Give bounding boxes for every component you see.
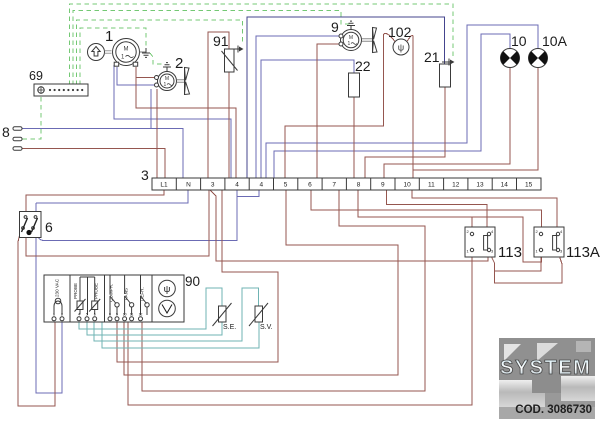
wire blue motor1 left terminal down to terminal 4 [114,65,231,178]
wire darkred relay 113 pin 1 to controller [128,252,472,405]
wire ground dashed PE4 to motor 1 ground and motor 2 ground [80,28,146,85]
svg-text:12: 12 [452,182,460,189]
svg-text:15: 15 [525,182,533,189]
svg-text:2: 2 [61,313,63,317]
wire darkred 21 bottom to terminal 8 [365,87,445,178]
wire blue switch6 right output to terminal 4 [36,190,237,241]
wire darkred 102 right lead to terminal 10 [407,35,413,178]
svg-text:4: 4 [235,182,239,189]
wire darkred motor1 right branch to terminal 4 [136,78,236,179]
svg-text:M: M [124,47,129,53]
svg-text:8: 8 [357,182,361,189]
wire darkred switch6 output to controller terminal 1 [18,230,55,406]
svg-text:6: 6 [308,182,312,189]
svg-text:S.E.: S.E. [223,324,236,331]
controller 90 [44,274,200,322]
WIRES-GREEN [22,4,453,139]
wire ground dashed PE2 to motor 9 ground [73,11,350,86]
svg-text:10: 10 [511,33,527,49]
svg-text:6: 6 [94,313,96,317]
svg-text:11: 11 [130,313,134,317]
svg-text:2: 2 [175,55,183,72]
svg-text:22: 22 [355,58,371,74]
wire ground dashed PE1 to 21 arrow [70,4,454,85]
wire blue lamp10A feed from terminal 4b [266,25,538,178]
wire blue plug8 to terminal N [22,129,183,179]
sensor SE [213,303,237,331]
svg-text:13: 13 [476,182,484,189]
svg-text:3: 3 [211,182,215,189]
wire blue motor2 lower down to L1 area [150,89,152,129]
svg-text:8: 8 [2,124,10,140]
svg-text:113A: 113A [566,244,600,261]
wire blue switch6 to controller terminal 2 [36,236,62,393]
wire blue N into switch 6 [35,203,37,212]
wire teal controller probe1 to sensor SE top [79,288,222,329]
wire ground dashed PE3 to 91 arrow [77,20,243,85]
svg-text:7: 7 [332,182,336,189]
logo SYSTEM [499,338,595,419]
sensor SV [249,303,273,331]
svg-text:COD. 3086730: COD. 3086730 [515,404,592,416]
wire darkred lamp10A return to terminal 10 [413,68,538,170]
thermostat 91 [213,33,244,72]
svg-text:9: 9 [331,19,339,35]
svg-text:11: 11 [428,182,435,189]
wire teal sensor SV bottom to controller [102,322,259,348]
svg-text:69: 69 [29,69,43,83]
fan motor 2 [184,67,186,95]
relay 113A [534,227,600,261]
svg-text:SYSTEM: SYSTEM [500,357,591,379]
wire blue N to switch 6 [36,190,188,203]
power cord 8 terminals [2,124,22,150]
motor M1 [105,28,146,66]
svg-text:5: 5 [284,182,288,189]
svg-text:8: 8 [109,313,111,317]
wire ground dashed PE6 from strip 69 to plug 8 [22,97,41,139]
terminal strip 69 [29,69,88,96]
wire blue terminal 4b to motor9 upper terminal [256,36,339,178]
ground motor 9 [347,21,355,29]
svg-text:9: 9 [116,313,118,317]
pump symbol left of motor 1 [88,44,112,61]
wire darkred 91 top to terminal 3 [208,32,229,178]
pressure switch 102 [388,24,412,55]
wire darkred terminal 8 to relay 113 pin 2 and 113A pin 1 [358,190,542,262]
svg-text:1: 1 [53,313,55,317]
svg-text:ψ: ψ [398,43,404,53]
motor M2 [155,55,185,91]
wire darkred motor9 lower terminal to terminal 6 [317,44,340,178]
svg-text:21: 21 [424,49,440,65]
svg-text:3: 3 [141,167,149,183]
wire darkred motor2 upper down to L1 area [156,89,158,178]
wire blue motor1 left terminal to motor2 lower terminal [117,67,154,85]
wire darkred terminal 5 to controller fans common [124,190,398,375]
svg-text:9: 9 [381,182,385,189]
lamp 10A [529,33,568,68]
wire darkred 91 bottom to terminal 4 [228,72,230,178]
main switch 6 [20,212,54,238]
wire navy terminal 4 to 21 top [247,17,445,178]
svg-text:1: 1 [164,82,167,88]
lamp 10 [501,33,527,68]
wire darkred lamp10 return to terminal 9 [384,68,510,178]
ground motor 2 [163,63,171,72]
svg-text:113: 113 [498,244,522,261]
wire blue lamp10 feed from terminal 4b [274,34,510,178]
wire darkred 22 bottom to terminal 8 [353,97,355,178]
svg-text:91: 91 [213,33,229,49]
wire darkred terminal 3 to controller compr common [117,190,278,362]
svg-text:PROBE: PROBE [73,283,78,299]
resistor 22 [349,58,371,97]
svg-text:14: 14 [501,182,509,189]
wire darkred through switch 6 [25,212,27,237]
svg-text:12: 12 [139,313,143,317]
wire darkred terminal 9 to relay 113 pin 4 [387,190,488,231]
wire darkred terminal 3 to relay 113 contact [210,190,488,261]
wire darkred motor1 right terminal to motor2 upper terminal [136,67,154,78]
svg-text:10: 10 [403,182,411,189]
fan motor 9 [372,27,374,53]
relay 113 [465,227,522,261]
wire darkred terminal 6 to relay 113A pin 2 [311,190,542,233]
svg-text:5: 5 [86,313,88,317]
klixon 21 [424,49,455,87]
wire darkred switch6 switched live to terminal 3 [26,190,209,256]
wire blue jumper terminal 4 to 4 [237,190,259,197]
svg-text:4: 4 [78,313,80,317]
wire blue terminal 4 second to resistor 22 top [261,60,354,178]
svg-text:S.V.: S.V. [260,324,273,331]
svg-text:10: 10 [123,313,127,317]
svg-text:1: 1 [105,28,113,45]
wire darkred terminal 7 to controller defrost NO [142,190,425,391]
wire darkred L1 to switch 6 [26,190,164,212]
terminal strip 3 [141,167,541,190]
svg-text:4: 4 [259,182,263,189]
svg-text:L1: L1 [160,182,168,189]
svg-text:102: 102 [388,24,412,40]
svg-text:10A: 10A [542,33,568,49]
svg-text:1: 1 [348,41,351,47]
wire darkred relay 113 pin 3 to relay 113A pin 3 [495,252,563,283]
wire teal controller probe2 to sensor SV top [94,288,259,341]
svg-text:N: N [186,182,191,189]
wire darkred relay 113 pin 3 to relay 113A pin 1 [489,252,541,271]
svg-text:230 VAC: 230 VAC [55,278,60,297]
ground motor 1 [142,48,150,57]
wire darkred terminal 10 to relay 113A pin 4 [412,190,557,231]
svg-text:90: 90 [185,274,200,289]
motor M9 evaporator fan [331,19,372,51]
wire darkred 102 left lead to terminal 5 [285,33,395,178]
wire blue through switch 6 [35,212,37,237]
wire teal sensor SE bottom to controller [87,322,222,335]
svg-text:ψ: ψ [164,284,171,295]
svg-text:6: 6 [45,219,53,235]
wire darkred plug8 to terminal L1 [22,149,165,179]
